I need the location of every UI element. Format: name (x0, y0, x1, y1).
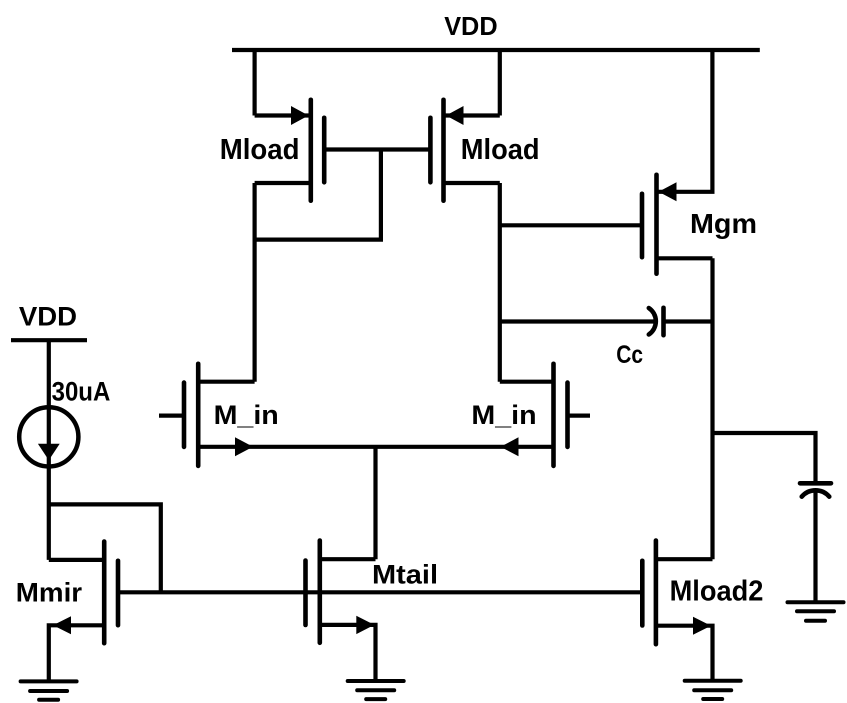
svg-text:Mload2: Mload2 (670, 576, 764, 608)
svg-text:Mmir: Mmir (16, 577, 82, 607)
svg-text:M_in: M_in (214, 400, 279, 430)
svg-text:30uA: 30uA (52, 376, 111, 406)
svg-text:VDD: VDD (444, 13, 497, 41)
svg-text:Mload: Mload (461, 134, 540, 166)
svg-text:Cc: Cc (616, 341, 643, 369)
svg-text:Mtail: Mtail (372, 560, 438, 590)
svg-text:Mgm: Mgm (690, 208, 757, 239)
svg-text:VDD: VDD (19, 302, 77, 332)
svg-text:Mload: Mload (220, 134, 300, 166)
svg-text:M_in: M_in (471, 400, 536, 430)
